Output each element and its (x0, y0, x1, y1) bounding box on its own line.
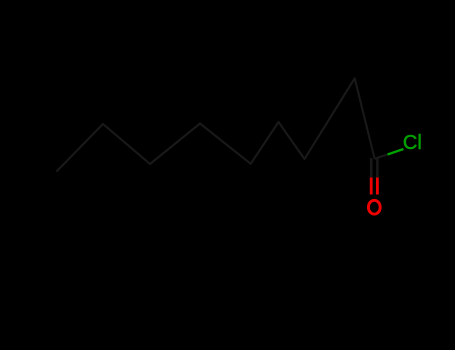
double bond C1=O oxygen-side halves (red) (370, 178, 373, 195)
wire: C1-Cl bond carbon-side half (near-black) (375, 155, 388, 159)
wire: alkyl chain zigzag (C10...C2 to carbonyl C1) (57, 78, 375, 171)
wire: C1=O double bond carbon-side halves (near-black) (370, 158, 373, 178)
svg-text:Cl: Cl (403, 132, 422, 154)
atom label O (368, 200, 380, 214)
bond C1-Cl chlorine-side half (green) (388, 149, 404, 155)
